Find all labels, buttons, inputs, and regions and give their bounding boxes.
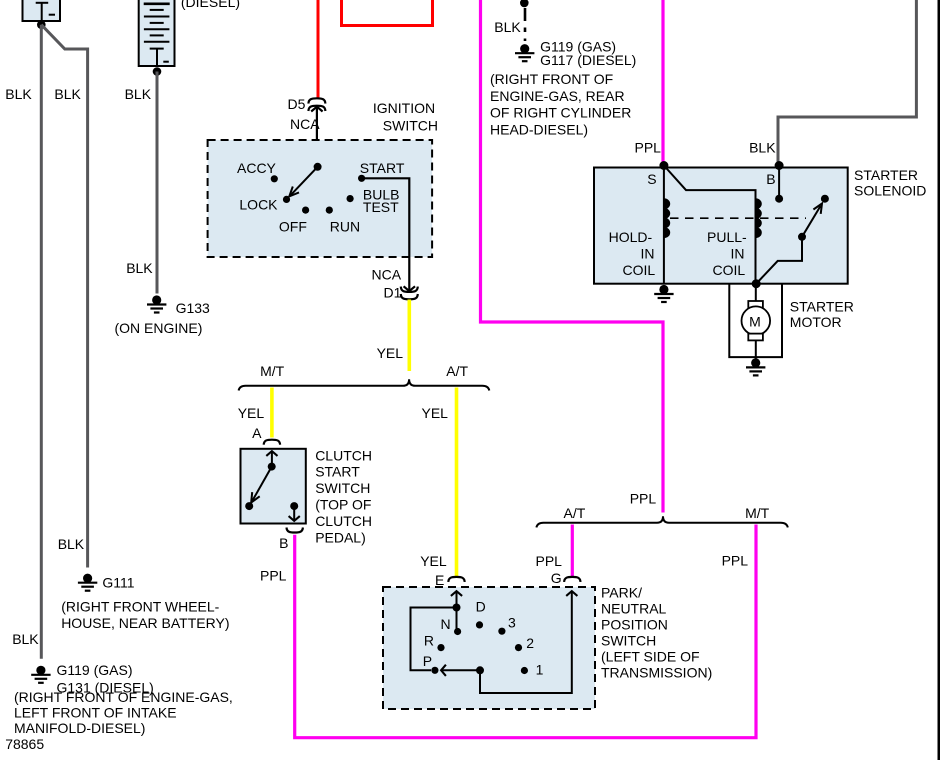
svg-text:B: B [279, 535, 288, 551]
svg-text:YEL: YEL [420, 553, 447, 569]
svg-text:E: E [435, 572, 444, 588]
node R [437, 644, 444, 651]
wire junction left and down to P [411, 608, 457, 671]
svg-text:PPL: PPL [635, 140, 662, 156]
svg-text:R: R [424, 633, 434, 649]
svg-text:G133: G133 [176, 300, 210, 316]
svg-text:HEAD-DIESEL): HEAD-DIESEL) [490, 121, 588, 137]
svg-text:BLK: BLK [494, 19, 521, 35]
svg-text:D5: D5 [288, 96, 306, 112]
svg-text:ACCY: ACCY [237, 160, 277, 176]
node RUN [326, 207, 333, 214]
junction block (red box, cut off) [342, 0, 433, 26]
svg-text:2: 2 [526, 635, 534, 651]
battery B2 (diesel, top, cut off) [139, 0, 175, 66]
battery B1 (gas, top left, cut off) [23, 0, 61, 21]
brace A/T - M/T [536, 516, 787, 527]
svg-text:1: 1 [536, 662, 544, 678]
node 2 [515, 644, 522, 651]
svg-text:YEL: YEL [377, 345, 404, 361]
svg-text:COIL: COIL [713, 262, 746, 278]
svg-text:STARTER: STARTER [854, 167, 918, 183]
wire S through hold-in coil to ground [663, 166, 665, 284]
pull-in coil [756, 199, 762, 237]
svg-text:(TOP OF: (TOP OF [315, 497, 371, 513]
clutch switch wiper arrow [251, 467, 272, 503]
ground G119/G131 (bottom left) [31, 666, 50, 683]
node battery B1 negative terminal [37, 20, 46, 29]
node S terminal [659, 161, 668, 170]
svg-text:OF RIGHT CYLINDER: OF RIGHT CYLINDER [490, 105, 631, 121]
clutch switch terminal A arrow up [266, 451, 277, 467]
svg-text:SOLENOID: SOLENOID [854, 183, 926, 199]
svg-text:SWITCH: SWITCH [315, 480, 370, 496]
svg-text:START: START [360, 160, 405, 176]
svg-text:TEST: TEST [363, 199, 399, 215]
svg-text:NCA: NCA [290, 116, 320, 132]
ignition switch pivot node [314, 163, 322, 171]
wire YEL D1 to splice brace [407, 300, 411, 372]
wire BLK battery1 to G119/G131 [40, 25, 43, 659]
svg-text:STARTER: STARTER [790, 299, 854, 315]
svg-text:NEUTRAL: NEUTRAL [601, 601, 667, 617]
node LOCK [283, 196, 290, 203]
node N [454, 628, 461, 635]
connector D5 [308, 98, 325, 111]
svg-text:A/T: A/T [446, 363, 468, 379]
node P [431, 667, 438, 674]
svg-text:LOCK: LOCK [239, 197, 278, 213]
svg-text:COIL: COIL [623, 262, 656, 278]
wire PPL ignition feed from top to brace cusp [481, 0, 664, 513]
svg-text:M: M [749, 314, 761, 330]
wire PPL drop to park/neutral switch G [571, 525, 574, 577]
svg-text:HOLD-: HOLD- [609, 229, 653, 245]
svg-text:D1: D1 [384, 285, 402, 301]
svg-text:HOUSE, NEAR BATTERY): HOUSE, NEAR BATTERY) [61, 615, 229, 631]
svg-text:MOTOR: MOTOR [790, 314, 842, 330]
svg-text:S: S [647, 171, 656, 187]
node clutch lower right [290, 502, 298, 510]
svg-text:YEL: YEL [238, 405, 265, 421]
wire RED battery feed [317, 0, 320, 98]
svg-text:BLK: BLK [54, 86, 81, 102]
svg-text:CLUTCH: CLUTCH [315, 513, 372, 529]
connector G [564, 577, 580, 582]
wire junction down right and up to G with arrow [480, 591, 577, 693]
node clutch upper [268, 463, 276, 471]
svg-text:PPL: PPL [630, 491, 657, 507]
svg-text:A: A [252, 425, 262, 441]
node battery B2 negative terminal [153, 67, 162, 76]
svg-text:BLK: BLK [125, 86, 152, 102]
wire solenoid to motor [755, 284, 757, 302]
svg-text:CLUTCH: CLUTCH [315, 447, 372, 463]
node PNP junction upper [453, 604, 461, 612]
svg-text:D: D [476, 599, 486, 615]
svg-text:SWITCH: SWITCH [601, 633, 656, 649]
svg-text:(LEFT SIDE OF: (LEFT SIDE OF [601, 649, 700, 665]
node solenoid output junction [752, 279, 761, 288]
node splice to G119/G117 [520, 0, 529, 7]
node B stub end [775, 195, 783, 203]
solenoid switch arm with arrow [802, 204, 822, 237]
node D [476, 621, 483, 628]
svg-text:M/T: M/T [260, 363, 285, 379]
node ACCY [271, 175, 278, 182]
ground G111 [78, 574, 97, 591]
wire PPL to solenoid S [661, 0, 664, 164]
svg-text:3: 3 [508, 615, 516, 631]
wire to D5 with up arrow [311, 107, 322, 167]
ground starter motor [746, 358, 765, 375]
svg-text:PPL: PPL [260, 568, 287, 584]
connector B [287, 528, 303, 533]
ground solenoid [654, 285, 673, 302]
svg-text:IGNITION: IGNITION [373, 100, 435, 116]
clutch start switch box [241, 449, 306, 524]
clutch switch terminal B arrow down [289, 506, 300, 521]
svg-text:OFF: OFF [279, 218, 307, 234]
svg-text:(RIGHT FRONT WHEEL-: (RIGHT FRONT WHEEL- [61, 598, 219, 614]
svg-text:PPL: PPL [722, 553, 749, 569]
dashed linkage [670, 217, 806, 219]
brace M/T - A/T [239, 379, 490, 390]
svg-text:BLK: BLK [12, 631, 39, 647]
wire PPL clutch B down, along bottom, up to brace M/T [295, 525, 756, 738]
svg-text:POSITION: POSITION [601, 617, 668, 633]
svg-text:IN: IN [641, 245, 655, 261]
svg-text:YEL: YEL [422, 405, 449, 421]
wire YEL drop to park/neutral switch E [455, 388, 459, 577]
wire YEL drop to clutch switch [270, 388, 274, 438]
motor brush upper [748, 301, 763, 308]
solenoid contact node upper [821, 195, 829, 203]
motor M circle [742, 306, 771, 335]
svg-text:RUN: RUN [330, 218, 360, 234]
page border right [938, 0, 941, 760]
wire BLK battery2 to G133 [156, 72, 159, 294]
svg-text:(RIGHT FRONT OF ENGINE-GAS,: (RIGHT FRONT OF ENGINE-GAS, [14, 689, 233, 705]
svg-text:BLK: BLK [126, 260, 153, 276]
svg-text:78865: 78865 [5, 736, 44, 752]
ignition switch wiper arrow to LOCK [289, 167, 317, 197]
node START [358, 175, 365, 182]
svg-text:(ON ENGINE): (ON ENGINE) [115, 320, 203, 336]
svg-text:PPL: PPL [536, 553, 563, 569]
wire BLK top right to solenoid B [778, 0, 916, 164]
svg-text:A/T: A/T [564, 505, 586, 521]
svg-text:BLK: BLK [749, 140, 776, 156]
node B terminal [775, 161, 784, 170]
starter solenoid box [594, 168, 848, 284]
node PNP junction lower [476, 666, 484, 674]
solenoid contact node middle [798, 233, 806, 241]
wire BLK battery1 to G111 [41, 25, 87, 568]
ignition switch box [208, 140, 433, 257]
svg-text:P: P [423, 653, 432, 669]
svg-text:MANIFOLD-DIESEL): MANIFOLD-DIESEL) [14, 720, 145, 736]
svg-text:(DIESEL): (DIESEL) [181, 0, 240, 10]
wire junction to N [456, 608, 458, 632]
svg-text:PULL-: PULL- [707, 229, 747, 245]
ground G133 [147, 295, 166, 312]
svg-text:LEFT FRONT OF INTAKE: LEFT FRONT OF INTAKE [14, 705, 177, 721]
svg-text:ENGINE-GAS, REAR: ENGINE-GAS, REAR [490, 88, 625, 104]
connector D1 [401, 287, 418, 300]
wire BLK dashed to ground [524, 8, 527, 41]
motor brush lower [748, 334, 763, 341]
svg-text:N: N [441, 616, 451, 632]
svg-text:PARK/: PARK/ [601, 585, 642, 601]
node BULB TEST [347, 195, 354, 202]
park/neutral position switch box [383, 587, 595, 709]
wire B terminal stub [778, 166, 780, 199]
solenoid switch arm lower [756, 237, 802, 284]
node 1 [521, 667, 528, 674]
svg-text:BLK: BLK [5, 86, 32, 102]
ground G119/G117 [515, 44, 534, 61]
svg-text:TRANSMISSION): TRANSMISSION) [601, 665, 712, 681]
svg-text:BLK: BLK [58, 536, 85, 552]
svg-text:M/T: M/T [745, 505, 770, 521]
svg-text:IN: IN [731, 245, 745, 261]
wire motor to ground [755, 340, 757, 358]
svg-text:G117 (DIESEL): G117 (DIESEL) [540, 52, 636, 68]
svg-text:G119 (GAS): G119 (GAS) [57, 662, 133, 678]
wire START to D1 with down arrow [362, 178, 415, 291]
PNP wiper arrow to P [441, 665, 480, 676]
PNP terminal E arrow up [451, 591, 462, 608]
svg-text:G: G [551, 570, 562, 586]
node 3 [498, 628, 505, 635]
svg-text:START: START [315, 464, 360, 480]
svg-text:G111: G111 [102, 575, 134, 591]
svg-text:(RIGHT FRONT OF: (RIGHT FRONT OF [490, 71, 613, 87]
svg-text:PEDAL): PEDAL) [315, 529, 366, 545]
hold-in coil [664, 199, 670, 237]
wire S diagonal to pull-in coil [664, 166, 756, 284]
svg-text:B: B [766, 171, 775, 187]
node OFF [302, 207, 309, 214]
node clutch lower left [245, 502, 253, 510]
connector E [448, 577, 464, 582]
svg-text:SWITCH: SWITCH [383, 118, 438, 134]
starter motor case [729, 284, 782, 357]
connector A [264, 440, 280, 445]
svg-text:NCA: NCA [372, 267, 402, 283]
